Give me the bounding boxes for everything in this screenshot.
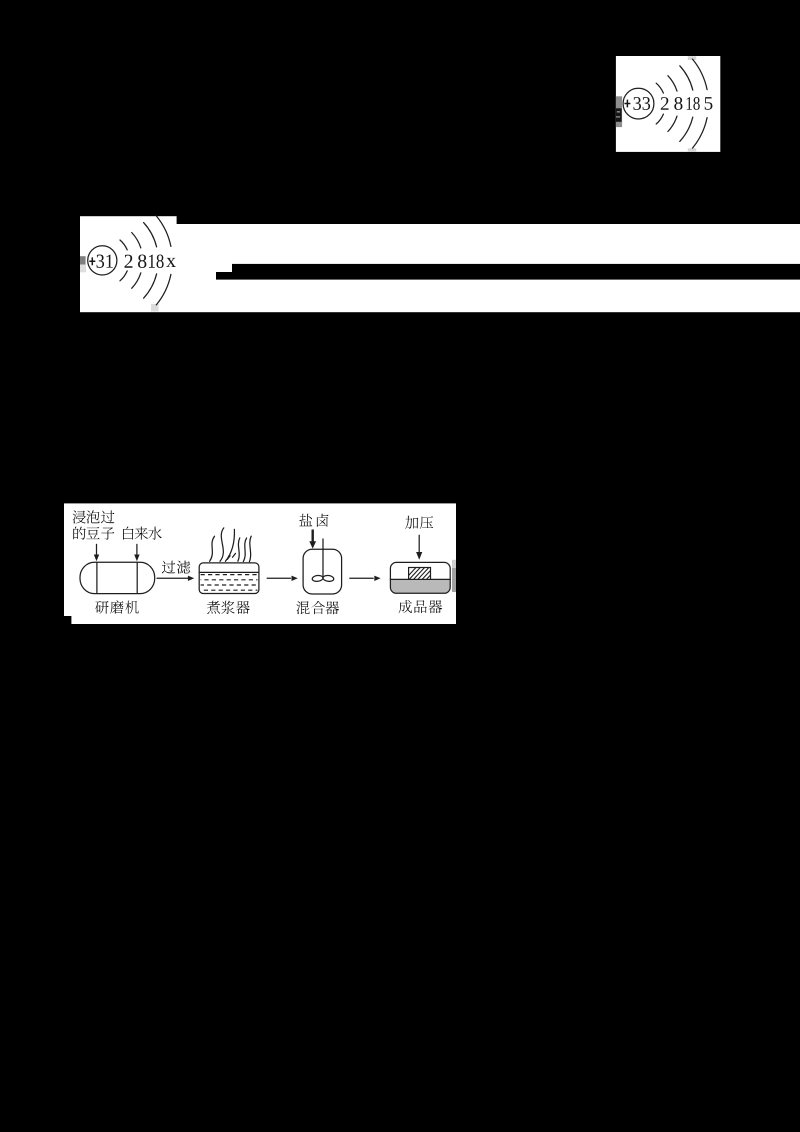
boiler liquid surface line — [199, 571, 258, 573]
electron shell arc upper 1 — [120, 240, 127, 250]
electron shell arc lower 3 — [680, 117, 693, 141]
label grinder 研磨机 — [95, 601, 109, 614]
arrow soaked beans into grinder — [96, 544, 98, 555]
boiler pot 煮浆器 — [199, 563, 259, 594]
electron shell arc upper 2 — [132, 233, 141, 248]
selection handle right edge of flow panel — [452, 560, 456, 568]
electron shell arc upper 4 — [156, 216, 171, 247]
flow diagram panel background — [64, 503, 456, 624]
electron shell arc upper 3 — [680, 66, 693, 90]
electron shell arc lower 1 — [656, 114, 663, 124]
label pressure 加压 — [405, 516, 418, 529]
label tap water 白来水 — [123, 527, 134, 540]
electron shell arc upper 1 — [656, 83, 663, 93]
selection handle bottom-center of +33 panel — [688, 148, 696, 152]
label mixer 混合器 — [296, 601, 309, 614]
boiler liquid dashes — [201, 574, 258, 576]
label brine 盐卤 — [299, 514, 312, 527]
hatched tofu block — [409, 568, 431, 580]
nucleus charge label +31 — [89, 257, 95, 265]
grinder capsule 研磨机 — [80, 562, 155, 593]
white text band and gallium atom panel background — [80, 224, 800, 312]
product box divider line — [390, 578, 450, 580]
selection handle / covered glyph left edge of +33 panel — [616, 96, 622, 127]
electron shell arc lower 4 — [156, 274, 171, 305]
black notch bottom-left of flow panel — [64, 616, 71, 624]
label press 成品器 — [399, 600, 412, 613]
black text strip overlay in band — [232, 264, 800, 280]
electron shell arc upper 3 — [144, 223, 157, 247]
nucleus charge label +33 — [624, 100, 630, 108]
bold arrow brine into mixer — [312, 530, 314, 542]
arrow grinder to boiler — [157, 577, 189, 579]
label soaked line1 浸泡过 — [73, 511, 86, 524]
electron shell arc upper 2 — [668, 76, 677, 91]
mixer vessel 混合器 — [303, 549, 342, 594]
stirrer propeller blades — [312, 575, 323, 582]
arrow tap water into grinder — [136, 544, 138, 555]
arrow press down into product box — [418, 535, 420, 552]
electron shell arc upper 4 — [693, 59, 708, 90]
label soaked line2 的豆子 — [73, 527, 85, 540]
nucleus circle +31 — [88, 246, 117, 275]
stirrer shaft — [322, 539, 324, 576]
shell electron counts 2 8 18 5 — [661, 97, 669, 110]
steam squiggles above boiler — [210, 536, 215, 561]
selection handle left-center dark of +31 panel — [80, 256, 86, 264]
electron shell arc lower 1 — [120, 271, 127, 281]
product box outline — [390, 562, 450, 593]
electron shell arc lower 2 — [132, 273, 141, 288]
nucleus circle +33 — [623, 88, 654, 119]
grinder internal partition lines — [96, 562, 98, 593]
electron shell arc lower 2 — [668, 116, 677, 131]
label boiler 煮浆器 — [207, 601, 220, 614]
product box 成品器 gray lower half — [390, 579, 450, 593]
selection handle left light of +31 panel — [80, 265, 86, 273]
arrow boiler to mixer — [267, 577, 290, 579]
figure panel: arsenic atom +33 diagram background — [616, 56, 720, 152]
electron shell arc lower 4 — [693, 118, 708, 149]
shell electron counts 2 8 18 x — [125, 255, 133, 268]
electron shell arc lower 3 — [144, 274, 157, 298]
selection handle bottom-center of +31 panel — [151, 304, 159, 312]
arrow mixer to press — [350, 577, 373, 579]
selection handle top-center of +33 panel — [688, 56, 696, 60]
label filter 过滤 — [162, 561, 175, 574]
